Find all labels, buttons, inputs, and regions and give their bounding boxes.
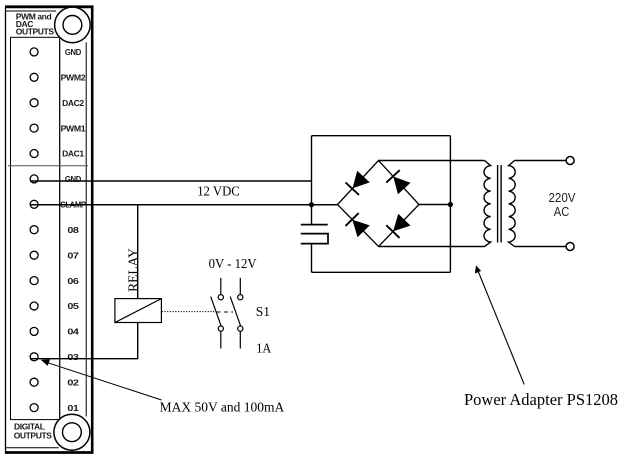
svg-text:AC: AC xyxy=(554,205,570,219)
header text PWM and DAC OUTPUTS xyxy=(16,12,55,37)
svg-text:RELAY: RELAY xyxy=(125,248,140,292)
svg-text:0V - 12V: 0V - 12V xyxy=(209,256,257,271)
transformer T1 secondary winding xyxy=(484,161,491,247)
annotation arrow to power adapter xyxy=(477,269,524,385)
svg-text:OUTPUTS: OUTPUTS xyxy=(14,430,53,440)
svg-text:MAX 50V and 100mA: MAX 50V and 100mA xyxy=(160,399,285,414)
svg-text:07: 07 xyxy=(67,250,79,260)
switch S1 pole 1 xyxy=(211,278,224,349)
wire bridge right corner to box edge xyxy=(419,204,450,206)
svg-text:01: 01 xyxy=(67,403,79,413)
terminal pin 08 row 8 xyxy=(30,226,38,234)
terminal pin DAC2 row 3 xyxy=(30,99,38,107)
svg-text:02: 02 xyxy=(67,377,79,387)
terminal pin 02 row 14 xyxy=(30,378,38,386)
svg-text:04: 04 xyxy=(67,327,79,337)
terminal pin 04 row 12 xyxy=(30,327,38,335)
svg-text:DAC1: DAC1 xyxy=(62,149,84,159)
diode D2 xyxy=(386,170,409,193)
label column left line xyxy=(59,41,61,420)
wire primary bottom to terminal xyxy=(515,246,567,248)
svg-text:06: 06 xyxy=(67,276,79,286)
label column right line xyxy=(85,42,87,416)
transformer T1 core xyxy=(497,165,499,243)
svg-text:220V: 220V xyxy=(549,191,577,205)
terminal pin GND row 6 xyxy=(30,175,38,183)
capacitor C1 top plate xyxy=(301,224,328,226)
terminal pin GND row 1 xyxy=(30,48,38,56)
svg-text:OUTPUTS: OUTPUTS xyxy=(16,27,55,37)
svg-text:DAC2: DAC2 xyxy=(62,98,84,108)
svg-text:08: 08 xyxy=(67,225,79,235)
footer text DIGITAL OUTPUTS xyxy=(14,422,53,441)
wire GND 12VDC from terminal to adapter box xyxy=(30,180,311,182)
separator line between PWM/DAC and digital sections xyxy=(8,165,88,167)
svg-text:S1: S1 xyxy=(256,304,270,319)
wire CLAMP from terminal to bridge left corner xyxy=(30,204,337,206)
junction node at CLAMP / capacitor xyxy=(309,202,314,207)
capacitor C1 bottom plate xyxy=(301,234,328,244)
svg-text:GND: GND xyxy=(65,47,81,57)
relay K1 coil box xyxy=(115,299,161,323)
terminal pin 07 row 9 xyxy=(30,251,38,259)
mechanical link dotted from relay to switch xyxy=(162,311,215,313)
terminal pin 06 row 10 xyxy=(30,277,38,285)
wire bridge bottom AC to transformer xyxy=(379,246,485,248)
terminal pin DAC1 row 5 xyxy=(30,150,38,158)
bridge rectifier diamond xyxy=(338,161,420,247)
diode D1 xyxy=(346,172,369,195)
wire 03 terminal to relay bottom xyxy=(30,323,138,359)
svg-text:PWM1: PWM1 xyxy=(61,123,86,133)
svg-text:GND: GND xyxy=(65,174,81,184)
svg-text:PWM2: PWM2 xyxy=(61,73,86,83)
diode D3 xyxy=(346,213,369,236)
mounting hole top xyxy=(55,7,91,43)
terminal pin PWM1 row 4 xyxy=(30,124,38,132)
AC terminal bottom xyxy=(566,243,574,251)
mechanical link dashed between poles xyxy=(217,311,234,313)
terminal pin 01 row 15 xyxy=(30,404,38,412)
wire bridge top AC to transformer xyxy=(379,160,485,162)
junction node at box right edge xyxy=(448,202,453,207)
svg-text:Power Adapter PS1208: Power Adapter PS1208 xyxy=(464,390,618,409)
terminal pin CLAMP row 7 xyxy=(30,200,38,208)
switch S1 pole 2 xyxy=(230,278,243,349)
annotation arrow to terminal 03 xyxy=(43,361,162,400)
transformer T1 primary winding xyxy=(509,161,516,247)
terminal pin PWM2 row 2 xyxy=(30,73,38,81)
connector block J1 outline xyxy=(5,6,94,454)
AC terminal top xyxy=(566,157,574,165)
mounting hole bottom xyxy=(54,414,90,450)
terminal pin 05 row 11 xyxy=(30,302,38,310)
wire primary top to terminal xyxy=(515,160,567,162)
power adapter enclosure box xyxy=(312,136,451,273)
svg-text:03: 03 xyxy=(67,352,79,362)
connector inner terminal panel xyxy=(11,37,60,419)
diode D4 xyxy=(386,215,409,238)
terminal pin 03 row 13 xyxy=(30,353,38,361)
wire CLAMP down to relay coil xyxy=(137,205,139,299)
svg-text:12 VDC: 12 VDC xyxy=(197,184,240,199)
svg-text:05: 05 xyxy=(67,301,79,311)
svg-text:1A: 1A xyxy=(256,340,271,355)
